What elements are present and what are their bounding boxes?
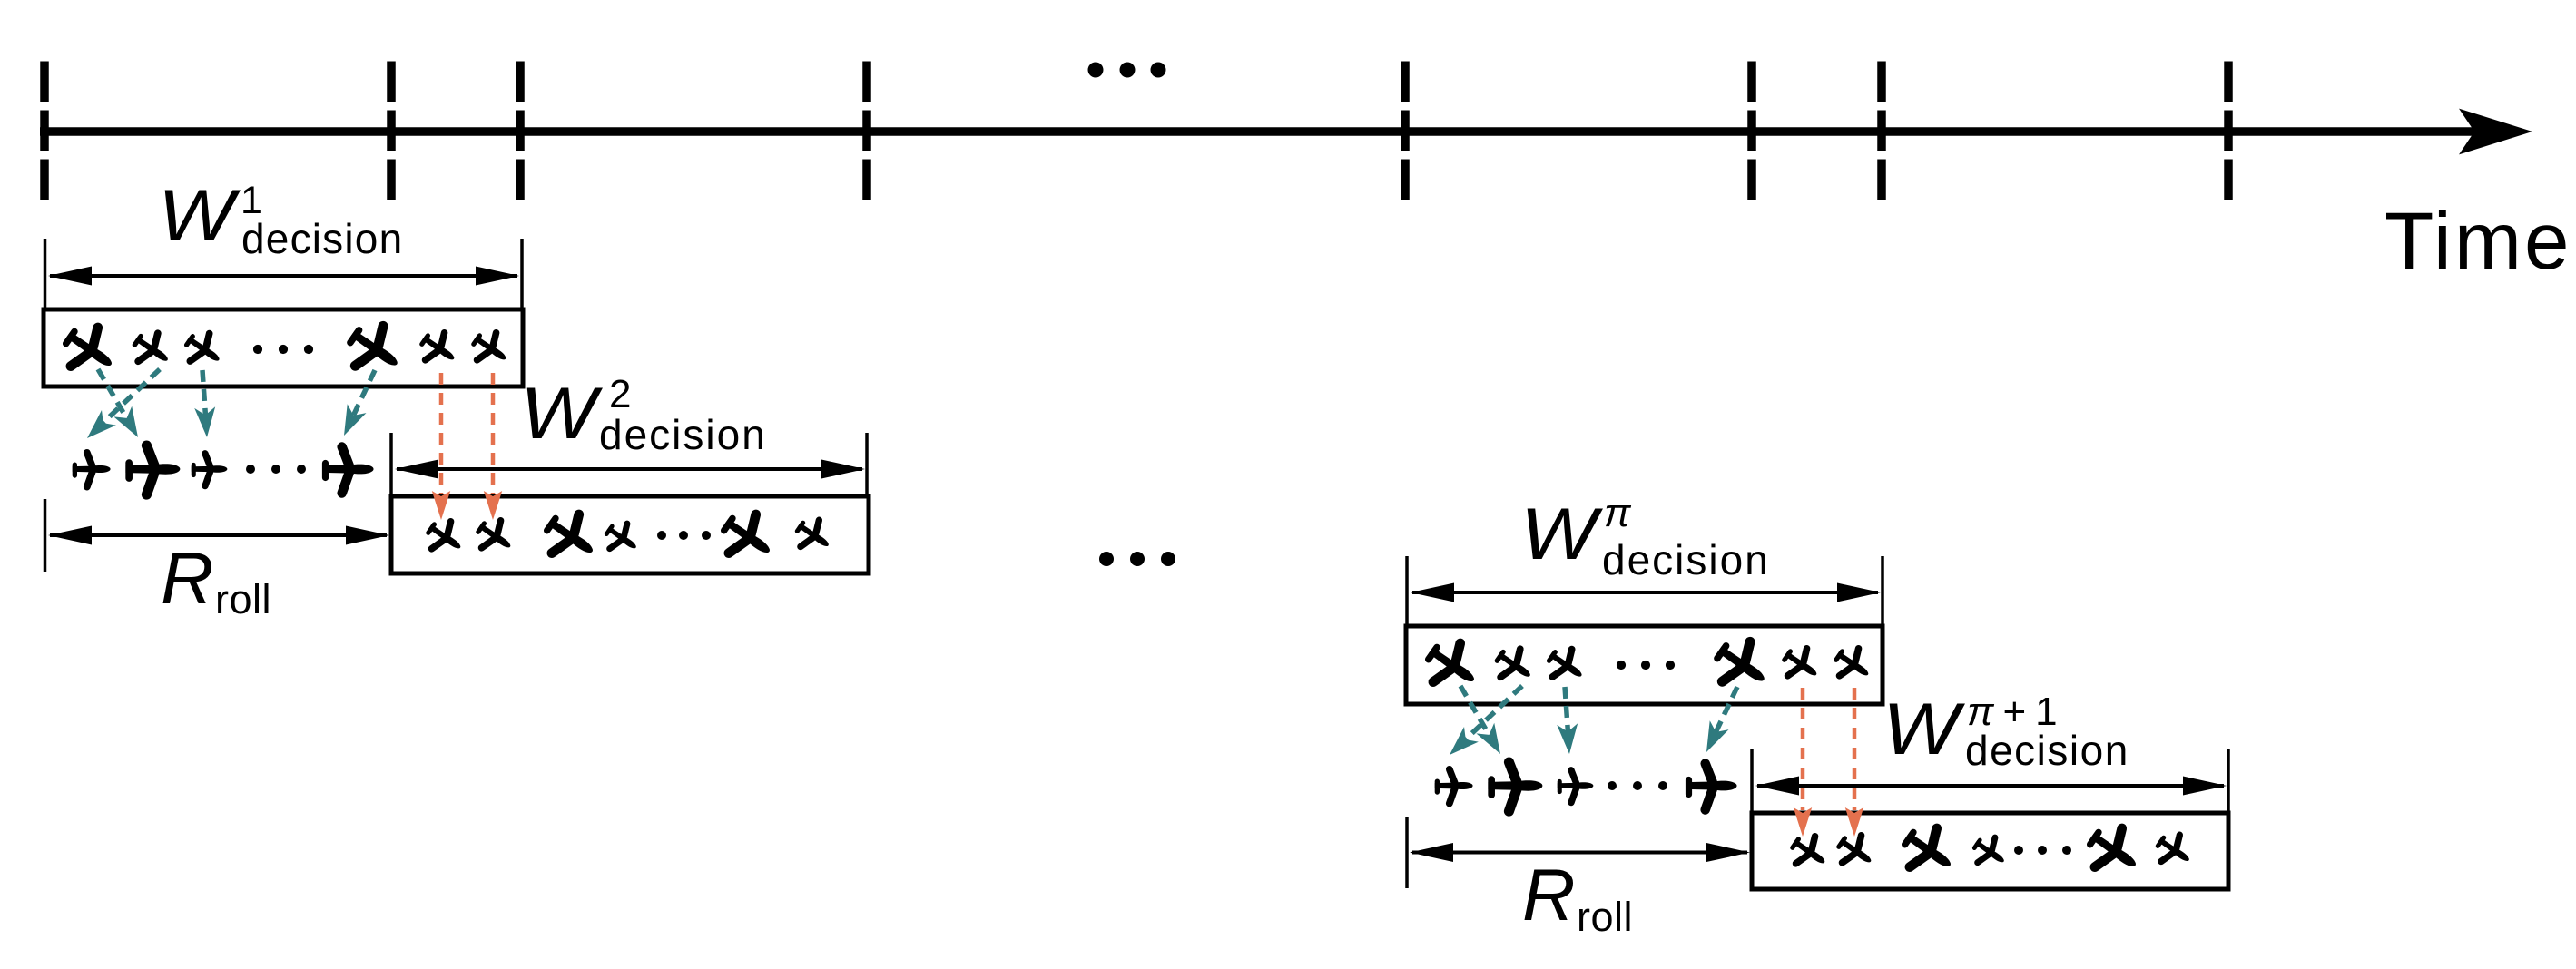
svg-text:roll: roll	[215, 576, 271, 622]
svg-text:W: W	[1520, 494, 1603, 575]
svg-text:W: W	[158, 175, 241, 257]
svg-text:decision: decision	[1965, 727, 2129, 774]
svg-text:roll: roll	[1577, 894, 1633, 940]
svg-text:R: R	[1522, 855, 1576, 936]
svg-text:Time: Time	[2384, 195, 2571, 286]
svg-text:decision: decision	[241, 215, 403, 262]
svg-text:π: π	[1604, 491, 1632, 535]
svg-text:W: W	[520, 373, 603, 455]
svg-text:decision: decision	[599, 411, 767, 458]
svg-text:decision: decision	[1602, 536, 1770, 583]
svg-text:R: R	[161, 538, 214, 620]
svg-text:2: 2	[609, 372, 631, 416]
svg-text:W: W	[1883, 689, 1965, 770]
